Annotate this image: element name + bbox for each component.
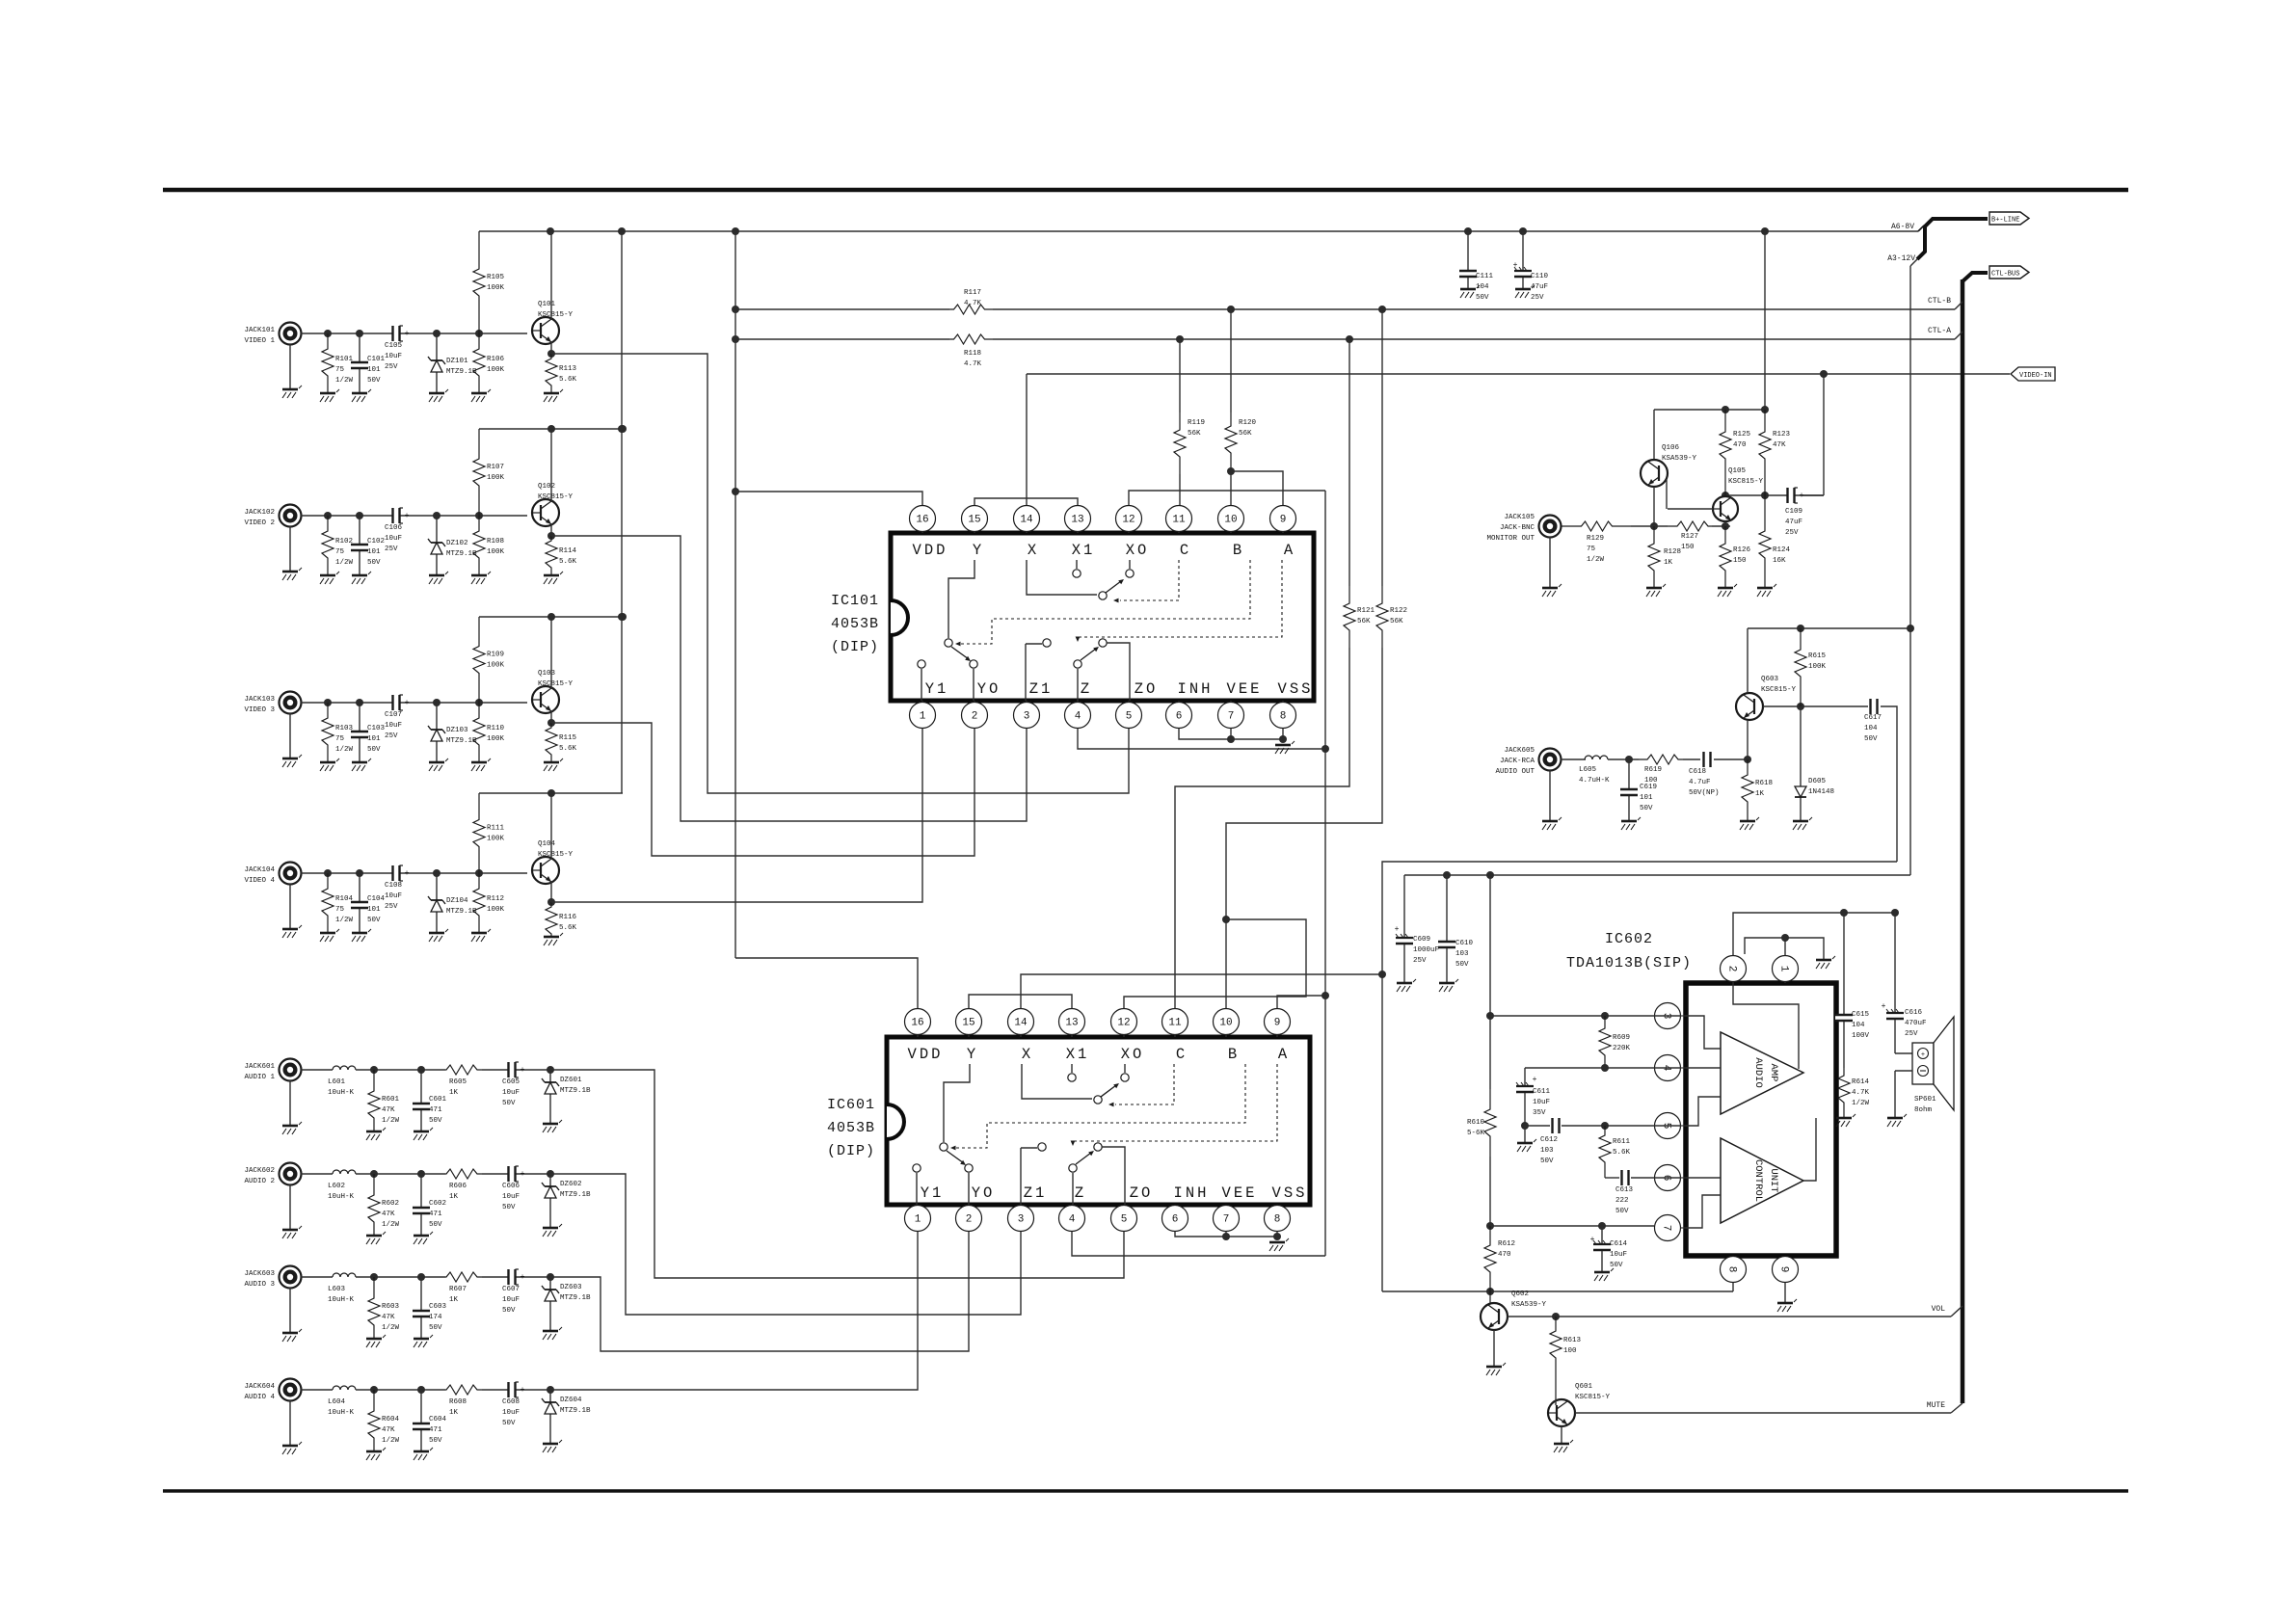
svg-text:A: A [1284, 542, 1295, 559]
svg-text:101: 101 [367, 906, 381, 914]
svg-text:+: + [405, 512, 410, 520]
svg-text:R606: R606 [449, 1183, 467, 1190]
svg-text:KSC815-Y: KSC815-Y [1761, 686, 1797, 694]
svg-text:VDD: VDD [908, 1046, 944, 1063]
svg-text:DZ604: DZ604 [560, 1397, 582, 1404]
svg-text:C605: C605 [502, 1078, 521, 1086]
svg-text:47uF: 47uF [1531, 283, 1548, 291]
svg-text:C603: C603 [429, 1303, 447, 1311]
svg-text:1/2W: 1/2W [1852, 1100, 1870, 1107]
svg-text:C618: C618 [1689, 768, 1706, 776]
svg-text:C101: C101 [367, 356, 386, 363]
svg-text:JACK605: JACK605 [1504, 747, 1535, 755]
svg-text:XO: XO [1126, 542, 1150, 559]
svg-text:10uH-K: 10uH-K [328, 1296, 355, 1304]
svg-text:25V: 25V [1531, 294, 1544, 302]
svg-text:10uF: 10uF [502, 1296, 520, 1304]
svg-text:11: 11 [1172, 515, 1186, 526]
svg-text:A: A [1278, 1046, 1290, 1063]
svg-text:16: 16 [916, 515, 928, 526]
svg-text:101: 101 [367, 735, 381, 743]
svg-text:R119: R119 [1188, 419, 1205, 427]
svg-text:R615: R615 [1808, 652, 1827, 660]
svg-text:10uH-K: 10uH-K [328, 1409, 355, 1417]
svg-text:9: 9 [1280, 515, 1287, 526]
svg-text:+: + [521, 1273, 525, 1282]
svg-text:12: 12 [1122, 515, 1135, 526]
svg-text:R603: R603 [382, 1303, 400, 1311]
svg-text:50V: 50V [502, 1100, 516, 1107]
svg-text:MTZ9.1B: MTZ9.1B [560, 1294, 591, 1302]
svg-text:75: 75 [335, 366, 345, 374]
svg-text:+: + [1590, 1236, 1595, 1244]
svg-text:R604: R604 [382, 1416, 400, 1423]
svg-text:Y: Y [967, 1046, 978, 1063]
svg-text:10: 10 [1219, 1018, 1232, 1029]
svg-text:DZ103: DZ103 [446, 727, 468, 734]
svg-text:IC101: IC101 [831, 593, 879, 609]
svg-text:50V: 50V [367, 746, 381, 754]
svg-text:MTZ9.1B: MTZ9.1B [560, 1191, 591, 1199]
svg-text:3: 3 [1018, 1214, 1025, 1226]
svg-text:MTZ9.1B: MTZ9.1B [560, 1407, 591, 1415]
svg-text:50V: 50V [1640, 805, 1653, 812]
svg-text:C611: C611 [1533, 1088, 1551, 1096]
svg-text:1/2W: 1/2W [382, 1221, 400, 1229]
svg-text:100K: 100K [487, 366, 505, 374]
svg-text:X1: X1 [1066, 1046, 1090, 1063]
svg-text:100K: 100K [1808, 663, 1827, 671]
svg-text:SP601: SP601 [1914, 1096, 1936, 1104]
svg-text:470: 470 [1498, 1251, 1511, 1259]
svg-text:DZ601: DZ601 [560, 1077, 582, 1084]
svg-text:101: 101 [367, 366, 381, 374]
svg-text:12: 12 [1117, 1018, 1130, 1029]
svg-text:C111: C111 [1476, 273, 1494, 280]
svg-text:5.6K: 5.6K [559, 376, 577, 384]
svg-text:10uF: 10uF [1610, 1251, 1627, 1259]
svg-text:R117: R117 [964, 289, 981, 297]
svg-text:4.7uF: 4.7uF [1689, 779, 1711, 786]
svg-text:D605: D605 [1808, 778, 1827, 785]
svg-text:R110: R110 [487, 725, 505, 732]
svg-text:C601: C601 [429, 1096, 447, 1104]
svg-text:10uF: 10uF [502, 1409, 520, 1417]
svg-text:VEE: VEE [1227, 680, 1263, 698]
svg-text:R127: R127 [1681, 533, 1698, 541]
svg-text:R109: R109 [487, 652, 504, 659]
svg-text:AUDIO 1: AUDIO 1 [244, 1074, 275, 1081]
svg-text:25V: 25V [385, 545, 398, 553]
svg-text:10uH-K: 10uH-K [328, 1089, 355, 1097]
svg-text:5.6K: 5.6K [559, 745, 577, 753]
svg-text:4.7uH-K: 4.7uH-K [1579, 777, 1610, 785]
svg-text:C106: C106 [385, 524, 403, 532]
svg-text:47K: 47K [382, 1426, 395, 1434]
svg-text:47K: 47K [1773, 441, 1786, 449]
svg-text:471: 471 [429, 1426, 442, 1434]
svg-text:75: 75 [335, 548, 345, 556]
svg-text:DZ104: DZ104 [446, 897, 468, 905]
svg-text:CTL-A: CTL-A [1928, 327, 1951, 335]
svg-text:50V(NP): 50V(NP) [1689, 789, 1720, 797]
svg-text:9: 9 [1778, 1266, 1790, 1273]
svg-text:C606: C606 [502, 1183, 521, 1190]
svg-text:MONITOR OUT: MONITOR OUT [1486, 535, 1535, 543]
svg-text:C105: C105 [385, 342, 403, 350]
svg-text:X1: X1 [1072, 542, 1096, 559]
svg-text:KSC815-Y: KSC815-Y [538, 493, 574, 501]
svg-text:25V: 25V [1785, 529, 1799, 537]
svg-text:1/2W: 1/2W [382, 1324, 400, 1332]
svg-text:R113: R113 [559, 365, 577, 373]
svg-text:Z: Z [1081, 680, 1092, 698]
svg-text:R614: R614 [1852, 1078, 1870, 1086]
svg-text:50V: 50V [502, 1204, 516, 1211]
svg-text:100: 100 [1644, 777, 1658, 785]
svg-text:4053B: 4053B [827, 1120, 875, 1136]
svg-text:AUDIO: AUDIO [1752, 1057, 1764, 1088]
svg-text:101: 101 [1640, 794, 1653, 802]
svg-text:JACK105: JACK105 [1504, 514, 1535, 521]
svg-text:11: 11 [1168, 1018, 1182, 1029]
svg-text:VIDEO-IN: VIDEO-IN [2019, 372, 2052, 380]
svg-text:1K: 1K [449, 1296, 459, 1304]
svg-text:MUTE: MUTE [1927, 1401, 1945, 1410]
svg-text:VIDEO 3: VIDEO 3 [244, 706, 275, 714]
svg-text:+: + [405, 869, 410, 878]
svg-text:50V: 50V [502, 1307, 516, 1315]
svg-text:5.6K: 5.6K [559, 924, 577, 932]
svg-text:Q105: Q105 [1728, 467, 1747, 475]
svg-text:R104: R104 [335, 895, 354, 903]
svg-text:R111: R111 [487, 825, 505, 833]
svg-text:KSC815-Y: KSC815-Y [1575, 1394, 1611, 1401]
svg-text:C615: C615 [1852, 1011, 1870, 1019]
svg-text:C107: C107 [385, 711, 402, 719]
svg-text:10uF: 10uF [502, 1089, 520, 1097]
svg-text:50V: 50V [1610, 1262, 1623, 1269]
svg-text:Q601: Q601 [1575, 1383, 1593, 1391]
svg-text:R610: R610 [1467, 1119, 1485, 1127]
svg-text:56K: 56K [1390, 618, 1403, 625]
svg-text:471: 471 [429, 1106, 442, 1114]
svg-text:5: 5 [1126, 711, 1133, 723]
svg-text:1N4148: 1N4148 [1808, 788, 1834, 796]
svg-text:50V: 50V [1615, 1208, 1629, 1215]
svg-text:174: 174 [429, 1314, 442, 1321]
svg-text:AUDIO 4: AUDIO 4 [244, 1394, 275, 1401]
svg-text:+: + [1395, 925, 1400, 934]
svg-text:100K: 100K [487, 735, 505, 743]
svg-text:1: 1 [920, 711, 926, 723]
svg-text:1/2W: 1/2W [382, 1437, 400, 1445]
svg-text:C602: C602 [429, 1200, 446, 1208]
svg-text:1/2W: 1/2W [335, 917, 354, 924]
svg-text:100K: 100K [487, 548, 505, 556]
svg-text:8ohm: 8ohm [1914, 1106, 1933, 1114]
svg-text:4: 4 [1075, 711, 1081, 723]
svg-text:JACK-RCA: JACK-RCA [1500, 758, 1535, 765]
svg-text:JACK103: JACK103 [244, 696, 275, 704]
svg-text:R114: R114 [559, 547, 577, 555]
svg-text:JACK602: JACK602 [244, 1167, 275, 1175]
svg-text:4: 4 [1069, 1214, 1076, 1226]
svg-text:JACK101: JACK101 [244, 327, 275, 334]
svg-text:1K: 1K [1755, 790, 1765, 798]
svg-text:1: 1 [915, 1214, 921, 1226]
svg-text:Y1: Y1 [921, 1184, 945, 1202]
svg-text:100K: 100K [487, 662, 505, 670]
svg-text:R126: R126 [1733, 546, 1751, 554]
svg-text:Q603: Q603 [1761, 676, 1779, 683]
svg-text:100: 100 [1563, 1347, 1577, 1355]
svg-text:C103: C103 [367, 725, 386, 732]
svg-text:10uH-K: 10uH-K [328, 1193, 355, 1201]
svg-text:1K: 1K [449, 1193, 459, 1201]
svg-text:R107: R107 [487, 464, 504, 471]
svg-text:R105: R105 [487, 274, 505, 281]
svg-text:Y1: Y1 [925, 680, 949, 698]
svg-text:R618: R618 [1755, 780, 1773, 787]
svg-text:13: 13 [1071, 515, 1083, 526]
svg-text:ZO: ZO [1135, 680, 1159, 698]
svg-text:1/2W: 1/2W [335, 746, 354, 754]
svg-text:Q102: Q102 [538, 483, 555, 491]
svg-text:4.7K: 4.7K [964, 360, 982, 368]
svg-text:10uF: 10uF [1533, 1099, 1550, 1106]
svg-text:AUDIO 2: AUDIO 2 [244, 1178, 275, 1185]
svg-text:50V: 50V [429, 1324, 442, 1332]
svg-text:56K: 56K [1239, 430, 1252, 438]
svg-text:KSA539-Y: KSA539-Y [1662, 455, 1697, 463]
svg-text:VOL: VOL [1932, 1305, 1946, 1314]
svg-text:104: 104 [1864, 725, 1878, 732]
svg-text:103: 103 [1540, 1147, 1554, 1155]
svg-text:50V: 50V [1476, 294, 1489, 302]
svg-text:YO: YO [977, 680, 1001, 698]
svg-text:+: + [521, 1066, 525, 1075]
svg-text:15: 15 [962, 1018, 974, 1029]
svg-text:8: 8 [1274, 1214, 1281, 1226]
svg-text:104: 104 [1476, 283, 1489, 291]
svg-text:1K: 1K [449, 1409, 459, 1417]
svg-text:C104: C104 [367, 895, 386, 903]
svg-text:Q106: Q106 [1662, 444, 1680, 452]
svg-text:220K: 220K [1613, 1045, 1631, 1052]
svg-text:1/2W: 1/2W [382, 1117, 400, 1125]
svg-text:JACK603: JACK603 [244, 1270, 275, 1278]
svg-text:1/2W: 1/2W [335, 377, 354, 385]
svg-text:R607: R607 [449, 1286, 467, 1293]
svg-text:+: + [1533, 1076, 1537, 1084]
svg-text:47K: 47K [382, 1106, 395, 1114]
svg-text:KSA539-Y: KSA539-Y [1511, 1301, 1547, 1309]
svg-text:C609: C609 [1413, 936, 1430, 944]
svg-text:DZ602: DZ602 [560, 1181, 582, 1188]
svg-text:R108: R108 [487, 538, 504, 545]
svg-text:C614: C614 [1610, 1240, 1628, 1248]
svg-text:10: 10 [1224, 515, 1237, 526]
svg-text:R103: R103 [335, 725, 354, 732]
svg-text:5: 5 [1121, 1214, 1128, 1226]
svg-text:Z1: Z1 [1029, 680, 1054, 698]
svg-text:R124: R124 [1773, 546, 1791, 554]
svg-text:B: B [1228, 1046, 1240, 1063]
svg-text:50V: 50V [1540, 1157, 1554, 1165]
svg-text:3: 3 [1024, 711, 1030, 723]
svg-text:CONTROL: CONTROL [1752, 1159, 1764, 1202]
svg-text:R602: R602 [382, 1200, 399, 1208]
svg-text:R122: R122 [1390, 607, 1407, 615]
svg-text:35V: 35V [1533, 1109, 1546, 1117]
svg-text:INH: INH [1174, 1184, 1210, 1202]
svg-text:+: + [1513, 261, 1518, 270]
svg-text:2: 2 [972, 711, 978, 723]
svg-text:14: 14 [1020, 515, 1033, 526]
svg-text:R125: R125 [1733, 431, 1751, 439]
svg-text:XO: XO [1121, 1046, 1145, 1063]
svg-text:R128: R128 [1664, 548, 1681, 556]
svg-text:104: 104 [1852, 1022, 1865, 1029]
svg-text:C607: C607 [502, 1286, 520, 1293]
svg-text:Q101: Q101 [538, 301, 556, 308]
svg-text:4.7K: 4.7K [964, 300, 982, 307]
svg-text:C612: C612 [1540, 1136, 1558, 1144]
svg-text:5.6K: 5.6K [559, 558, 577, 566]
svg-text:470: 470 [1733, 441, 1747, 449]
svg-text:IC602: IC602 [1605, 931, 1653, 947]
svg-text:150: 150 [1681, 544, 1695, 551]
svg-text:+: + [1921, 1051, 1925, 1059]
svg-text:50V: 50V [367, 377, 381, 385]
svg-text:47K: 47K [382, 1211, 395, 1218]
svg-text:A3-12V: A3-12V [1887, 254, 1915, 263]
svg-text:C109: C109 [1785, 508, 1802, 516]
svg-text:C613: C613 [1615, 1186, 1634, 1194]
svg-text:C: C [1180, 542, 1191, 559]
svg-text:8: 8 [1726, 1266, 1738, 1273]
svg-text:Q103: Q103 [538, 670, 556, 678]
svg-text:IC601: IC601 [827, 1097, 875, 1113]
svg-text:R608: R608 [449, 1398, 467, 1406]
svg-text:L605: L605 [1579, 766, 1597, 774]
svg-text:50V: 50V [429, 1437, 442, 1445]
svg-text:VSS: VSS [1278, 680, 1314, 698]
svg-text:CTL-B: CTL-B [1928, 297, 1951, 306]
svg-text:100K: 100K [487, 906, 505, 914]
svg-text:+: + [521, 1170, 525, 1179]
svg-text:100V: 100V [1852, 1032, 1870, 1040]
svg-text:B+-LINE: B+-LINE [1991, 217, 2019, 225]
svg-text:R121: R121 [1357, 607, 1375, 615]
svg-text:100K: 100K [487, 474, 505, 482]
svg-text:222: 222 [1615, 1197, 1629, 1205]
svg-text:50V: 50V [502, 1420, 516, 1427]
svg-text:56K: 56K [1357, 618, 1371, 625]
svg-text:2: 2 [1726, 966, 1738, 972]
svg-text:INH: INH [1178, 680, 1214, 698]
svg-text:Z1: Z1 [1024, 1184, 1048, 1202]
svg-text:CTL-BUS: CTL-BUS [1991, 271, 2019, 279]
svg-text:JACK601: JACK601 [244, 1063, 275, 1071]
svg-text:150: 150 [1733, 557, 1747, 565]
svg-text:6: 6 [1172, 1214, 1179, 1226]
svg-text:50V: 50V [429, 1117, 442, 1125]
svg-text:JACK104: JACK104 [244, 866, 275, 874]
svg-text:TDA1013B(SIP): TDA1013B(SIP) [1566, 955, 1692, 971]
svg-text:7: 7 [1661, 1225, 1672, 1232]
svg-text:Q602: Q602 [1511, 1290, 1529, 1298]
svg-text:101: 101 [367, 548, 381, 556]
svg-text:R612: R612 [1498, 1240, 1515, 1248]
svg-text:9: 9 [1274, 1018, 1281, 1029]
svg-text:75: 75 [335, 906, 345, 914]
svg-text:YO: YO [972, 1184, 996, 1202]
svg-text:C617: C617 [1864, 714, 1882, 722]
svg-text:X: X [1028, 542, 1039, 559]
svg-text:75: 75 [335, 735, 345, 743]
svg-text:(DIP): (DIP) [827, 1143, 875, 1159]
svg-text:50V: 50V [1455, 961, 1469, 969]
svg-text:VSS: VSS [1272, 1184, 1308, 1202]
svg-text:R115: R115 [559, 734, 577, 742]
svg-text:C110: C110 [1531, 273, 1549, 280]
svg-text:MTZ9.1B: MTZ9.1B [446, 908, 477, 916]
svg-text:DZ101: DZ101 [446, 358, 468, 365]
svg-text:VIDEO 1: VIDEO 1 [244, 337, 275, 345]
svg-text:2: 2 [966, 1214, 973, 1226]
svg-text:16K: 16K [1773, 557, 1786, 565]
svg-text:R118: R118 [964, 350, 981, 358]
svg-text:MTZ9.1B: MTZ9.1B [560, 1087, 591, 1095]
svg-text:+: + [405, 330, 410, 338]
svg-text:10uF: 10uF [385, 722, 402, 730]
svg-text:4053B: 4053B [831, 616, 879, 632]
svg-text:R101: R101 [335, 356, 354, 363]
svg-text:470uF: 470uF [1905, 1020, 1927, 1027]
svg-text:R605: R605 [449, 1078, 467, 1086]
svg-text:KSC815-Y: KSC815-Y [538, 851, 574, 859]
svg-text:10uF: 10uF [385, 892, 402, 900]
svg-text:L602: L602 [328, 1183, 345, 1190]
svg-text:103: 103 [1455, 950, 1469, 958]
svg-text:8: 8 [1280, 711, 1287, 723]
svg-text:C619: C619 [1640, 784, 1657, 791]
svg-text:5-6K: 5-6K [1467, 1130, 1485, 1137]
svg-text:13: 13 [1065, 1018, 1078, 1029]
svg-text:DZ603: DZ603 [560, 1284, 582, 1291]
svg-text:MTZ9.1B: MTZ9.1B [446, 737, 477, 745]
svg-text:15: 15 [968, 515, 980, 526]
svg-text:1000uF: 1000uF [1413, 946, 1439, 954]
svg-text:MTZ9.1B: MTZ9.1B [446, 550, 477, 558]
svg-text:7: 7 [1228, 711, 1235, 723]
svg-text:Z: Z [1075, 1184, 1086, 1202]
svg-text:7: 7 [1223, 1214, 1230, 1226]
svg-text:VIDEO 2: VIDEO 2 [244, 519, 275, 527]
svg-text:VEE: VEE [1222, 1184, 1258, 1202]
svg-text:25V: 25V [385, 903, 398, 911]
svg-text:R116: R116 [559, 914, 577, 921]
svg-text:JACK-BNC: JACK-BNC [1500, 524, 1535, 532]
svg-text:14: 14 [1014, 1018, 1028, 1029]
svg-text:47uF: 47uF [1785, 519, 1802, 526]
svg-text:JACK604: JACK604 [244, 1383, 275, 1391]
svg-text:C108: C108 [385, 882, 402, 890]
svg-text:L601: L601 [328, 1078, 346, 1086]
svg-text:100K: 100K [487, 836, 505, 843]
